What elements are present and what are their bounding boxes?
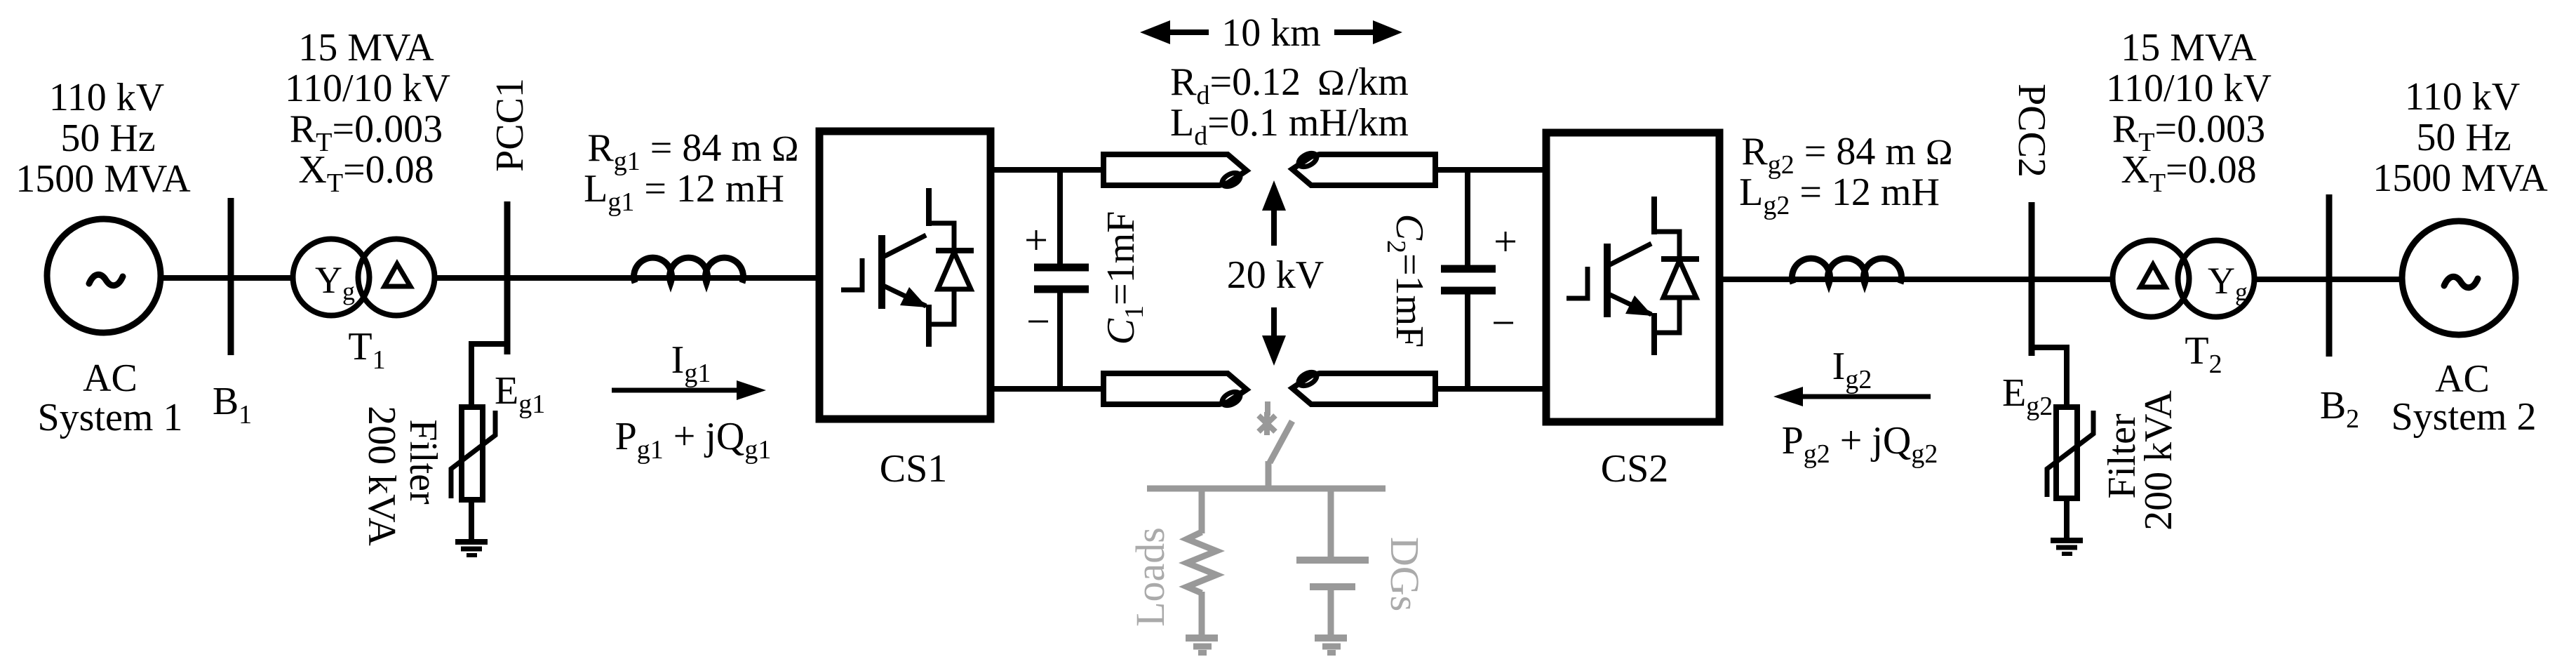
- wire DC+ (cable to CS2): [1435, 167, 1546, 173]
- label Filter 200 kVA (right): [2100, 390, 2180, 531]
- svg-text:15 MVA: 15 MVA: [298, 26, 434, 69]
- svg-text:50 Hz: 50 Hz: [60, 117, 155, 160]
- wire: filter to ground: [469, 500, 474, 540]
- svg-text:110/10 kV: 110/10 kV: [2106, 67, 2272, 110]
- svg-text:Filter: Filter: [401, 419, 445, 505]
- wire: bus to DG source: [1328, 486, 1334, 560]
- svg-text:Pg2 + jQg2: Pg2 + jQg2: [1782, 419, 1938, 469]
- delta symbol (T1 secondary winding): [384, 264, 410, 286]
- arrow down (20 kV to DC-): [1262, 307, 1286, 366]
- svg-text:110/10 kV: 110/10 kV: [285, 67, 450, 110]
- switch blade (gray): [1270, 421, 1292, 463]
- svg-text:Eg2: Eg2: [2002, 371, 2053, 421]
- label Filter 200 kVA (left): [360, 406, 445, 546]
- svg-text:50 Hz: 50 Hz: [2416, 116, 2511, 159]
- svg-text:Loads: Loads: [1127, 527, 1173, 627]
- svg-text:+: +: [1494, 218, 1517, 265]
- inductor Lg1: [633, 258, 743, 283]
- svg-text:110 kV: 110 kV: [2405, 75, 2520, 119]
- wire DC- (cable to CS2): [1435, 386, 1546, 392]
- svg-text:CS2: CS2: [1601, 447, 1669, 491]
- AC source: AC System 1: [47, 219, 161, 333]
- svg-text:XT=0.08: XT=0.08: [298, 148, 434, 198]
- capacitor C2: [1441, 170, 1496, 389]
- wire: filter to ground (right): [2064, 498, 2069, 539]
- wire: tap stub (gray feeder): [1265, 401, 1270, 416]
- svg-text:200 kVA: 200 kVA: [2137, 390, 2180, 531]
- breaker mark (gray asterisk): [1259, 412, 1275, 435]
- label AC System 1: [38, 357, 183, 439]
- svg-text:XT=0.08: XT=0.08: [2121, 148, 2256, 198]
- cable segment (DC- right): [1292, 369, 1435, 404]
- ground (DGs, gray): [1315, 638, 1347, 653]
- svg-text:T1: T1: [348, 325, 385, 375]
- transformer T2: [2113, 241, 2255, 317]
- svg-text:Pg1 + jQg1: Pg1 + jQg1: [615, 415, 772, 465]
- label 110 kV 50 Hz 1500 MVA (right source): [2373, 75, 2548, 200]
- svg-text:C2=1mF: C2=1mF: [1381, 214, 1431, 348]
- arrow 10 km (left): [1140, 20, 1209, 44]
- svg-text:PCC2: PCC2: [2010, 84, 2053, 178]
- resistor Loads (gray): [1187, 532, 1216, 593]
- bus PCC2: [2029, 202, 2035, 356]
- wire DC+ (CS1 to cable): [991, 167, 1103, 173]
- svg-text:−: −: [1491, 300, 1515, 346]
- wire: DG to ground: [1328, 590, 1334, 635]
- arrow Ig2 (power flow left): [1773, 387, 1931, 406]
- wire: bus to load resistor: [1199, 486, 1205, 533]
- svg-text:CS1: CS1: [880, 447, 948, 491]
- IGBT with diode (CS2): [1567, 197, 1699, 355]
- svg-text:PCC1: PCC1: [488, 78, 532, 172]
- arrow Ig1 (power flow right): [612, 380, 766, 400]
- svg-text:Ig1: Ig1: [671, 338, 711, 388]
- varistor filter (left): [451, 407, 495, 500]
- varistor filter (right): [2047, 407, 2093, 498]
- svg-text:Ig2: Ig2: [1832, 345, 1872, 394]
- wire: switch to gray bus: [1266, 461, 1272, 489]
- wire: CS2 to AC source 2: [1719, 277, 2402, 282]
- svg-text:10 km: 10 km: [1221, 11, 1321, 55]
- svg-text:DGs: DGs: [1382, 537, 1428, 611]
- svg-text:110 kV: 110 kV: [49, 76, 164, 119]
- svg-text:AC: AC: [83, 357, 137, 400]
- svg-text:B1: B1: [213, 380, 252, 430]
- converter CS2 box: [1546, 133, 1719, 422]
- bus B2: [2326, 194, 2333, 357]
- svg-text:System 1: System 1: [38, 396, 183, 439]
- svg-text:C1=1mF: C1=1mF: [1099, 211, 1149, 345]
- bus B1: [228, 198, 234, 355]
- cable segment (DC+ left): [1103, 154, 1247, 190]
- svg-text:20 kV: 20 kV: [1227, 253, 1324, 297]
- label 110 kV 50 Hz 1500 MVA (left source): [15, 76, 191, 201]
- svg-text:15 MVA: 15 MVA: [2121, 26, 2257, 69]
- svg-text:200 kVA: 200 kVA: [360, 406, 403, 546]
- cable segment (DC+ right): [1292, 150, 1435, 185]
- svg-text:T2: T2: [2185, 329, 2222, 379]
- converter CS1 box: [819, 131, 991, 419]
- transformer T1: [293, 239, 435, 316]
- wire: PCC2 to filter: [2032, 347, 2067, 407]
- svg-text:1500 MVA: 1500 MVA: [15, 157, 191, 201]
- arrow up (20 kV to DC+): [1262, 180, 1286, 246]
- svg-text:+: +: [1024, 217, 1048, 263]
- svg-text:AC: AC: [2435, 357, 2490, 401]
- delta symbol (T2 secondary winding): [2140, 265, 2166, 287]
- label AC System 2: [2391, 357, 2537, 439]
- wire: resistor to ground: [1199, 592, 1205, 635]
- wire DC- (CS1 to cable): [991, 386, 1103, 392]
- arrow 10 km (right): [1334, 20, 1402, 44]
- AC source: AC System 2: [2402, 221, 2516, 335]
- capacitor C1: [1034, 170, 1089, 389]
- ground (right filter): [2051, 540, 2083, 554]
- ground (Loads, gray): [1186, 638, 1218, 653]
- inductor Lg2: [1792, 258, 1902, 284]
- battery DGs (gray): [1296, 560, 1369, 587]
- svg-text:1500 MVA: 1500 MVA: [2373, 157, 2548, 200]
- svg-text:B2: B2: [2320, 384, 2359, 434]
- label 15 MVA 110/10 kV RT XT (T2 parameters): [2106, 26, 2272, 198]
- wire: source to converter CS1: [161, 275, 819, 281]
- ground (left filter): [455, 542, 488, 555]
- bus PCC1: [504, 201, 511, 354]
- svg-text:System 2: System 2: [2391, 395, 2537, 439]
- svg-text:−: −: [1026, 298, 1050, 345]
- svg-text:Eg1: Eg1: [495, 369, 545, 419]
- cable segment (DC- left): [1103, 373, 1247, 408]
- gray distribution bus: [1147, 486, 1386, 492]
- IGBT with diode (CS1): [841, 188, 974, 347]
- wire: PCC1 to filter: [471, 344, 507, 407]
- label 15 MVA 110/10 kV RT XT (T1 parameters): [285, 26, 450, 198]
